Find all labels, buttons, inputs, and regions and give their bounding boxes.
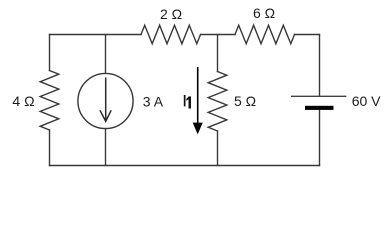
resistor 5 Ohm	[208, 72, 227, 132]
svg-text:60 V: 60 V	[352, 93, 381, 109]
current arrow I1	[194, 67, 202, 132]
wire left branch lower	[49, 130, 51, 166]
wire current-source branch upper	[105, 35, 107, 74]
wire current-source branch lower	[105, 129, 107, 166]
resistor 2 Ohm	[141, 25, 201, 44]
wire left branch upper	[49, 35, 51, 71]
wire top rail right segment	[295, 34, 320, 36]
svg-text:2 Ω: 2 Ω	[160, 6, 182, 22]
battery 60 V negative plate	[305, 106, 334, 110]
battery 60 V positive plate	[291, 95, 346, 97]
svg-text:4 Ω: 4 Ω	[12, 93, 34, 109]
svg-text:5 Ω: 5 Ω	[234, 93, 256, 109]
resistor 6 Ohm	[235, 25, 295, 44]
wire middle branch upper	[217, 35, 219, 72]
wire right branch upper	[319, 35, 321, 97]
wire right branch lower	[319, 110, 321, 166]
resistor 4 Ohm	[40, 71, 59, 131]
current source 3 A circle	[78, 73, 133, 128]
wire top rail middle segment	[201, 34, 236, 36]
current source arrow	[100, 78, 111, 122]
wire middle branch lower	[217, 131, 219, 166]
wire bottom rail	[50, 165, 320, 167]
label I1	[184, 95, 191, 109]
svg-text:3 A: 3 A	[143, 93, 164, 109]
wire top rail left segment	[50, 34, 142, 36]
svg-text:6 Ω: 6 Ω	[253, 5, 275, 21]
